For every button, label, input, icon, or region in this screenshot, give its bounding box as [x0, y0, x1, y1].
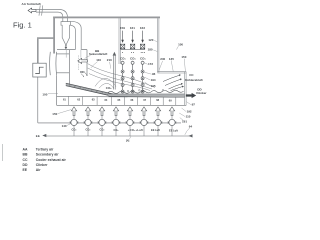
- svg-text:Klinker: Klinker: [196, 91, 207, 95]
- svg-text:Sekundärluft: Sekundärluft: [89, 52, 107, 56]
- svg-text:159: 159: [120, 26, 125, 30]
- svg-text:DD: DD: [23, 163, 28, 167]
- leader 150 left: [58, 110, 71, 114]
- svg-text:AA: AA: [23, 148, 28, 152]
- leader 172: [145, 63, 148, 64]
- svg-text:210: 210: [107, 58, 112, 62]
- leader 110 right: [179, 113, 185, 117]
- lance 2 feed arrow: [132, 31, 134, 43]
- leader 120: [154, 40, 157, 42]
- hood roof: [57, 49, 87, 51]
- lance 3 valve bowtie: [140, 44, 144, 49]
- svg-text:CO₂: CO₂: [120, 56, 127, 60]
- svg-text:96: 96: [152, 72, 156, 76]
- partition flow arrowhead: [113, 52, 117, 56]
- svg-text:EE Luft: EE Luft: [151, 128, 160, 132]
- svg-text:EE: EE: [36, 134, 40, 138]
- clinker streamline 2: [88, 68, 152, 89]
- cyclone funnel: [61, 22, 71, 46]
- svg-text:61: 61: [63, 97, 66, 101]
- cell dividers: [68, 96, 175, 105]
- svg-text:67: 67: [143, 98, 146, 102]
- svg-text:240: 240: [160, 57, 165, 61]
- arrow DD clinker out: [186, 93, 196, 98]
- partition wall with up arrow: [114, 56, 116, 90]
- svg-text:63: 63: [92, 98, 95, 102]
- svg-text:CO₂: CO₂: [86, 128, 91, 132]
- lance 1 valve bowtie: [120, 44, 124, 49]
- lance 1 feed arrow: [122, 31, 124, 43]
- svg-text:68: 68: [156, 98, 159, 102]
- page edge mark: [2, 144, 4, 161]
- step wall horizontal: [37, 37, 55, 39]
- svg-text:Cooler exhaust air: Cooler exhaust air: [36, 158, 67, 162]
- leader 194: [145, 77, 151, 80]
- grate cell row bottom line: [57, 104, 187, 106]
- hood inner chute lines: [66, 50, 81, 58]
- bed pebbles: [127, 90, 129, 92]
- sloped inlet grate band: [66, 83, 114, 96]
- svg-text:66: 66: [131, 98, 134, 102]
- svg-text:DD: DD: [80, 70, 85, 74]
- cooler right wall: [185, 72, 186, 106]
- leader BB: [85, 56, 91, 59]
- valve drip dots: [122, 51, 145, 54]
- svg-text:94: 94: [189, 124, 193, 128]
- EE arrowhead right: [189, 134, 193, 137]
- svg-text:62: 62: [77, 98, 80, 102]
- enclosure left wall upper: [53, 17, 55, 54]
- lance 3 chain: [141, 61, 144, 93]
- svg-text:CO₂: CO₂: [72, 128, 77, 132]
- svg-text:Secondary air: Secondary air: [36, 153, 59, 157]
- svg-text:CC: CC: [23, 158, 28, 162]
- cooler roof right section: [158, 72, 187, 73]
- svg-text:195: 195: [151, 84, 156, 88]
- svg-text:Kühlerabluft: Kühlerabluft: [185, 78, 203, 82]
- fan stubs upper: [74, 116, 172, 120]
- svg-text:Air: Air: [36, 168, 41, 172]
- filter box: [33, 63, 46, 77]
- leader 192: [182, 108, 187, 112]
- fan side ticks: [70, 121, 176, 124]
- cooler left wall lower: [56, 75, 58, 105]
- svg-text:161: 161: [130, 26, 135, 30]
- kiln axis dashed line: [78, 56, 80, 71]
- svg-text:[4]: [4]: [126, 138, 129, 142]
- streamline hill arc small: [99, 83, 114, 88]
- svg-text:69: 69: [169, 98, 172, 102]
- svg-text:AA Tertiärluft: AA Tertiärluft: [22, 2, 41, 6]
- leader 135: [171, 61, 173, 72]
- lance 2 valve bowtie: [130, 44, 134, 49]
- CC exhaust arrow 1: [163, 75, 179, 81]
- svg-text:172: 172: [148, 62, 153, 66]
- svg-text:192: 192: [187, 109, 192, 113]
- arrow BB secondary air: [78, 58, 88, 63]
- leader 191: [180, 118, 184, 121]
- CO2 header line: [120, 49, 145, 51]
- leader 94: [185, 128, 190, 135]
- fan inlet labels: [72, 128, 179, 133]
- arrow AA tertiary air out: [28, 8, 36, 13]
- enclosure top wall: [53, 17, 160, 19]
- leader 140: [67, 124, 71, 126]
- leader 150 roof: [184, 59, 185, 72]
- kiln shell top line: [57, 53, 70, 55]
- leader 97: [187, 102, 192, 105]
- svg-text:135: 135: [169, 57, 174, 61]
- grate band: [109, 94, 185, 96]
- svg-text:180: 180: [148, 48, 153, 52]
- filter step symbol: [35, 67, 43, 73]
- svg-text:CC: CC: [189, 73, 194, 77]
- clinker streamline 3: [89, 74, 150, 91]
- clinker fall arrows: [81, 73, 87, 77]
- downcomer line to fan header: [37, 77, 39, 123]
- svg-text:CO₂: CO₂: [100, 128, 105, 132]
- leader 100 upper right: [176, 46, 178, 49]
- svg-text:163: 163: [140, 26, 145, 30]
- funnel discharge arrow: [65, 46, 67, 48]
- svg-text:BB: BB: [23, 153, 28, 157]
- EE arrowhead left: [42, 134, 46, 137]
- leader 180: [153, 50, 157, 52]
- kiln shell bottom line: [57, 72, 70, 74]
- svg-text:CO₂: CO₂: [140, 56, 147, 60]
- svg-text:194: 194: [151, 78, 156, 82]
- CC exhaust arrow 2: [165, 80, 180, 86]
- grate cell row top line: [57, 96, 185, 97]
- upper box right wall: [158, 18, 159, 72]
- leader 210: [110, 62, 111, 69]
- svg-text:100: 100: [42, 93, 47, 97]
- svg-text:97: 97: [192, 103, 196, 107]
- svg-text:100: 100: [178, 42, 183, 46]
- svg-text:120: 120: [148, 38, 153, 42]
- svg-text:Clinker: Clinker: [36, 163, 48, 167]
- lance 3 feed arrow: [142, 31, 144, 43]
- downcomer wall to filter box: [37, 39, 39, 63]
- lance 1 chain: [121, 61, 124, 93]
- fan suction line: [38, 122, 181, 124]
- lance 2 chain: [131, 61, 134, 93]
- svg-text:110: 110: [186, 114, 191, 118]
- sloped grate hatch: [69, 84, 109, 95]
- wavy clinker bed line: [108, 90, 184, 93]
- svg-text:CO₂: CO₂: [114, 128, 119, 132]
- svg-text:150: 150: [52, 112, 57, 116]
- fan circles: [71, 119, 175, 125]
- leader 100 kiln: [48, 93, 58, 95]
- kiln end arcs: [50, 52, 57, 75]
- leader 195: [145, 82, 151, 86]
- svg-text:150: 150: [181, 55, 186, 59]
- EE air header line: [45, 135, 192, 137]
- svg-text:110: 110: [96, 58, 101, 62]
- svg-text:EE: EE: [23, 168, 28, 172]
- svg-text:65: 65: [118, 98, 121, 102]
- aeration block arrows: [71, 107, 174, 116]
- secondary duct elbow down: [71, 21, 82, 49]
- fan stubs lower: [74, 126, 172, 137]
- tertiary air pipe: [36, 9, 68, 21]
- legend: [23, 148, 67, 172]
- svg-text:+CO₂+Luft: +CO₂+Luft: [128, 128, 144, 132]
- svg-text:Fig. 1: Fig. 1: [13, 20, 32, 29]
- svg-text:64: 64: [105, 98, 108, 102]
- leader 240: [159, 61, 163, 71]
- leader 96: [145, 72, 152, 74]
- hood right wall: [86, 50, 88, 76]
- CC exhaust arrow 4: [171, 87, 183, 91]
- svg-text:CO₂: CO₂: [106, 86, 113, 90]
- svg-text:Tertiary air: Tertiary air: [36, 148, 54, 152]
- CC exhaust arrow 3: [169, 84, 182, 89]
- svg-text:EE Luft: EE Luft: [169, 128, 178, 132]
- svg-text:140: 140: [62, 124, 67, 128]
- clinker streamline 1: [88, 64, 155, 88]
- streamline hill arc: [95, 78, 116, 86]
- upper box left wall: [119, 18, 120, 64]
- cell labels: [63, 97, 172, 102]
- hood left wall: [68, 50, 70, 85]
- svg-text:CO₂: CO₂: [130, 56, 137, 60]
- pipe break marks: [39, 5, 43, 15]
- leader 110: [91, 62, 98, 68]
